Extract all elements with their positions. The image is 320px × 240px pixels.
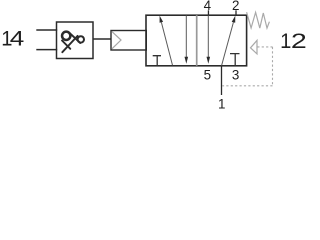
left chamber flow 2-3 line: [185, 16, 187, 58]
actuator box (low-pressure pilot head): [57, 22, 94, 59]
svg-text:2: 2: [291, 29, 307, 53]
left chamber flow 2-3 arrowhead: [185, 57, 189, 64]
pilot 12 triangle: [251, 40, 258, 54]
symbol small loop: [78, 36, 84, 42]
port 2 stub: [235, 10, 237, 15]
pilot 12 dashed line vertical: [272, 47, 274, 86]
wire upper pilot line 14: [36, 29, 57, 31]
valve divider: [196, 15, 198, 66]
left chamber flow 1-4 arrowhead: [160, 16, 164, 23]
right chamber flow 4-5 arrowhead: [207, 57, 211, 64]
right chamber blocked port 3 T: [230, 54, 240, 66]
port 4 stub: [207, 10, 209, 15]
pilot 12 dashed line bottom: [222, 85, 273, 87]
return spring: [247, 12, 270, 28]
right chamber flow 1-2 line: [222, 22, 234, 65]
valve body 5/2: [146, 15, 247, 66]
svg-text:3: 3: [232, 68, 239, 83]
pilot 12 dashed line horizontal: [257, 46, 272, 48]
svg-text:4: 4: [10, 27, 25, 51]
svg-text:2: 2: [232, 0, 239, 13]
symbol crossing stroke 3 (short tail): [62, 41, 70, 49]
wire box to pilot: [93, 38, 111, 40]
svg-text:1: 1: [280, 29, 291, 53]
wire lower pilot line 14: [36, 49, 57, 51]
svg-text:4: 4: [204, 0, 212, 13]
right chamber flow 1-2 arrowhead: [232, 16, 236, 23]
svg-text:5: 5: [204, 68, 211, 83]
right chamber flow 4-5 line: [207, 16, 209, 58]
pilot chevron: [112, 31, 121, 49]
port 1 line: [221, 66, 223, 95]
left chamber blocked port 5 T: [153, 56, 161, 66]
symbol crossing stroke 2 (long tail): [62, 36, 77, 52]
symbol crossing stroke 1: [69, 33, 80, 43]
symbol large loop: [62, 32, 70, 40]
left chamber flow 1-4 line: [161, 22, 172, 65]
pilot rectangle Z: [111, 31, 146, 51]
svg-text:1: 1: [218, 97, 225, 112]
